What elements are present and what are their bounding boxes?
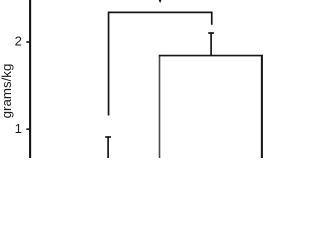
- bar B2 error bar cap: [208, 32, 214, 34]
- significance bracket: [109, 12, 212, 115]
- svg-text:grams/kg: grams/kg: [0, 64, 14, 119]
- bar B2 top edge: [159, 55, 263, 57]
- bar B1 error bar cap: [105, 136, 111, 138]
- bar B1 error bar line (bar below crop): [107, 137, 109, 158]
- svg-text:2: 2: [15, 34, 22, 49]
- svg-text:1: 1: [15, 121, 22, 136]
- bar B2 right edge: [261, 55, 263, 158]
- bar B2 left edge: [159, 55, 161, 158]
- y tick 1: [26, 128, 30, 130]
- asterisk (cropped at top): [158, 0, 162, 3]
- bar B2 error bar line: [210, 33, 212, 56]
- y tick 2: [26, 41, 30, 43]
- y-axis: [29, 0, 31, 158]
